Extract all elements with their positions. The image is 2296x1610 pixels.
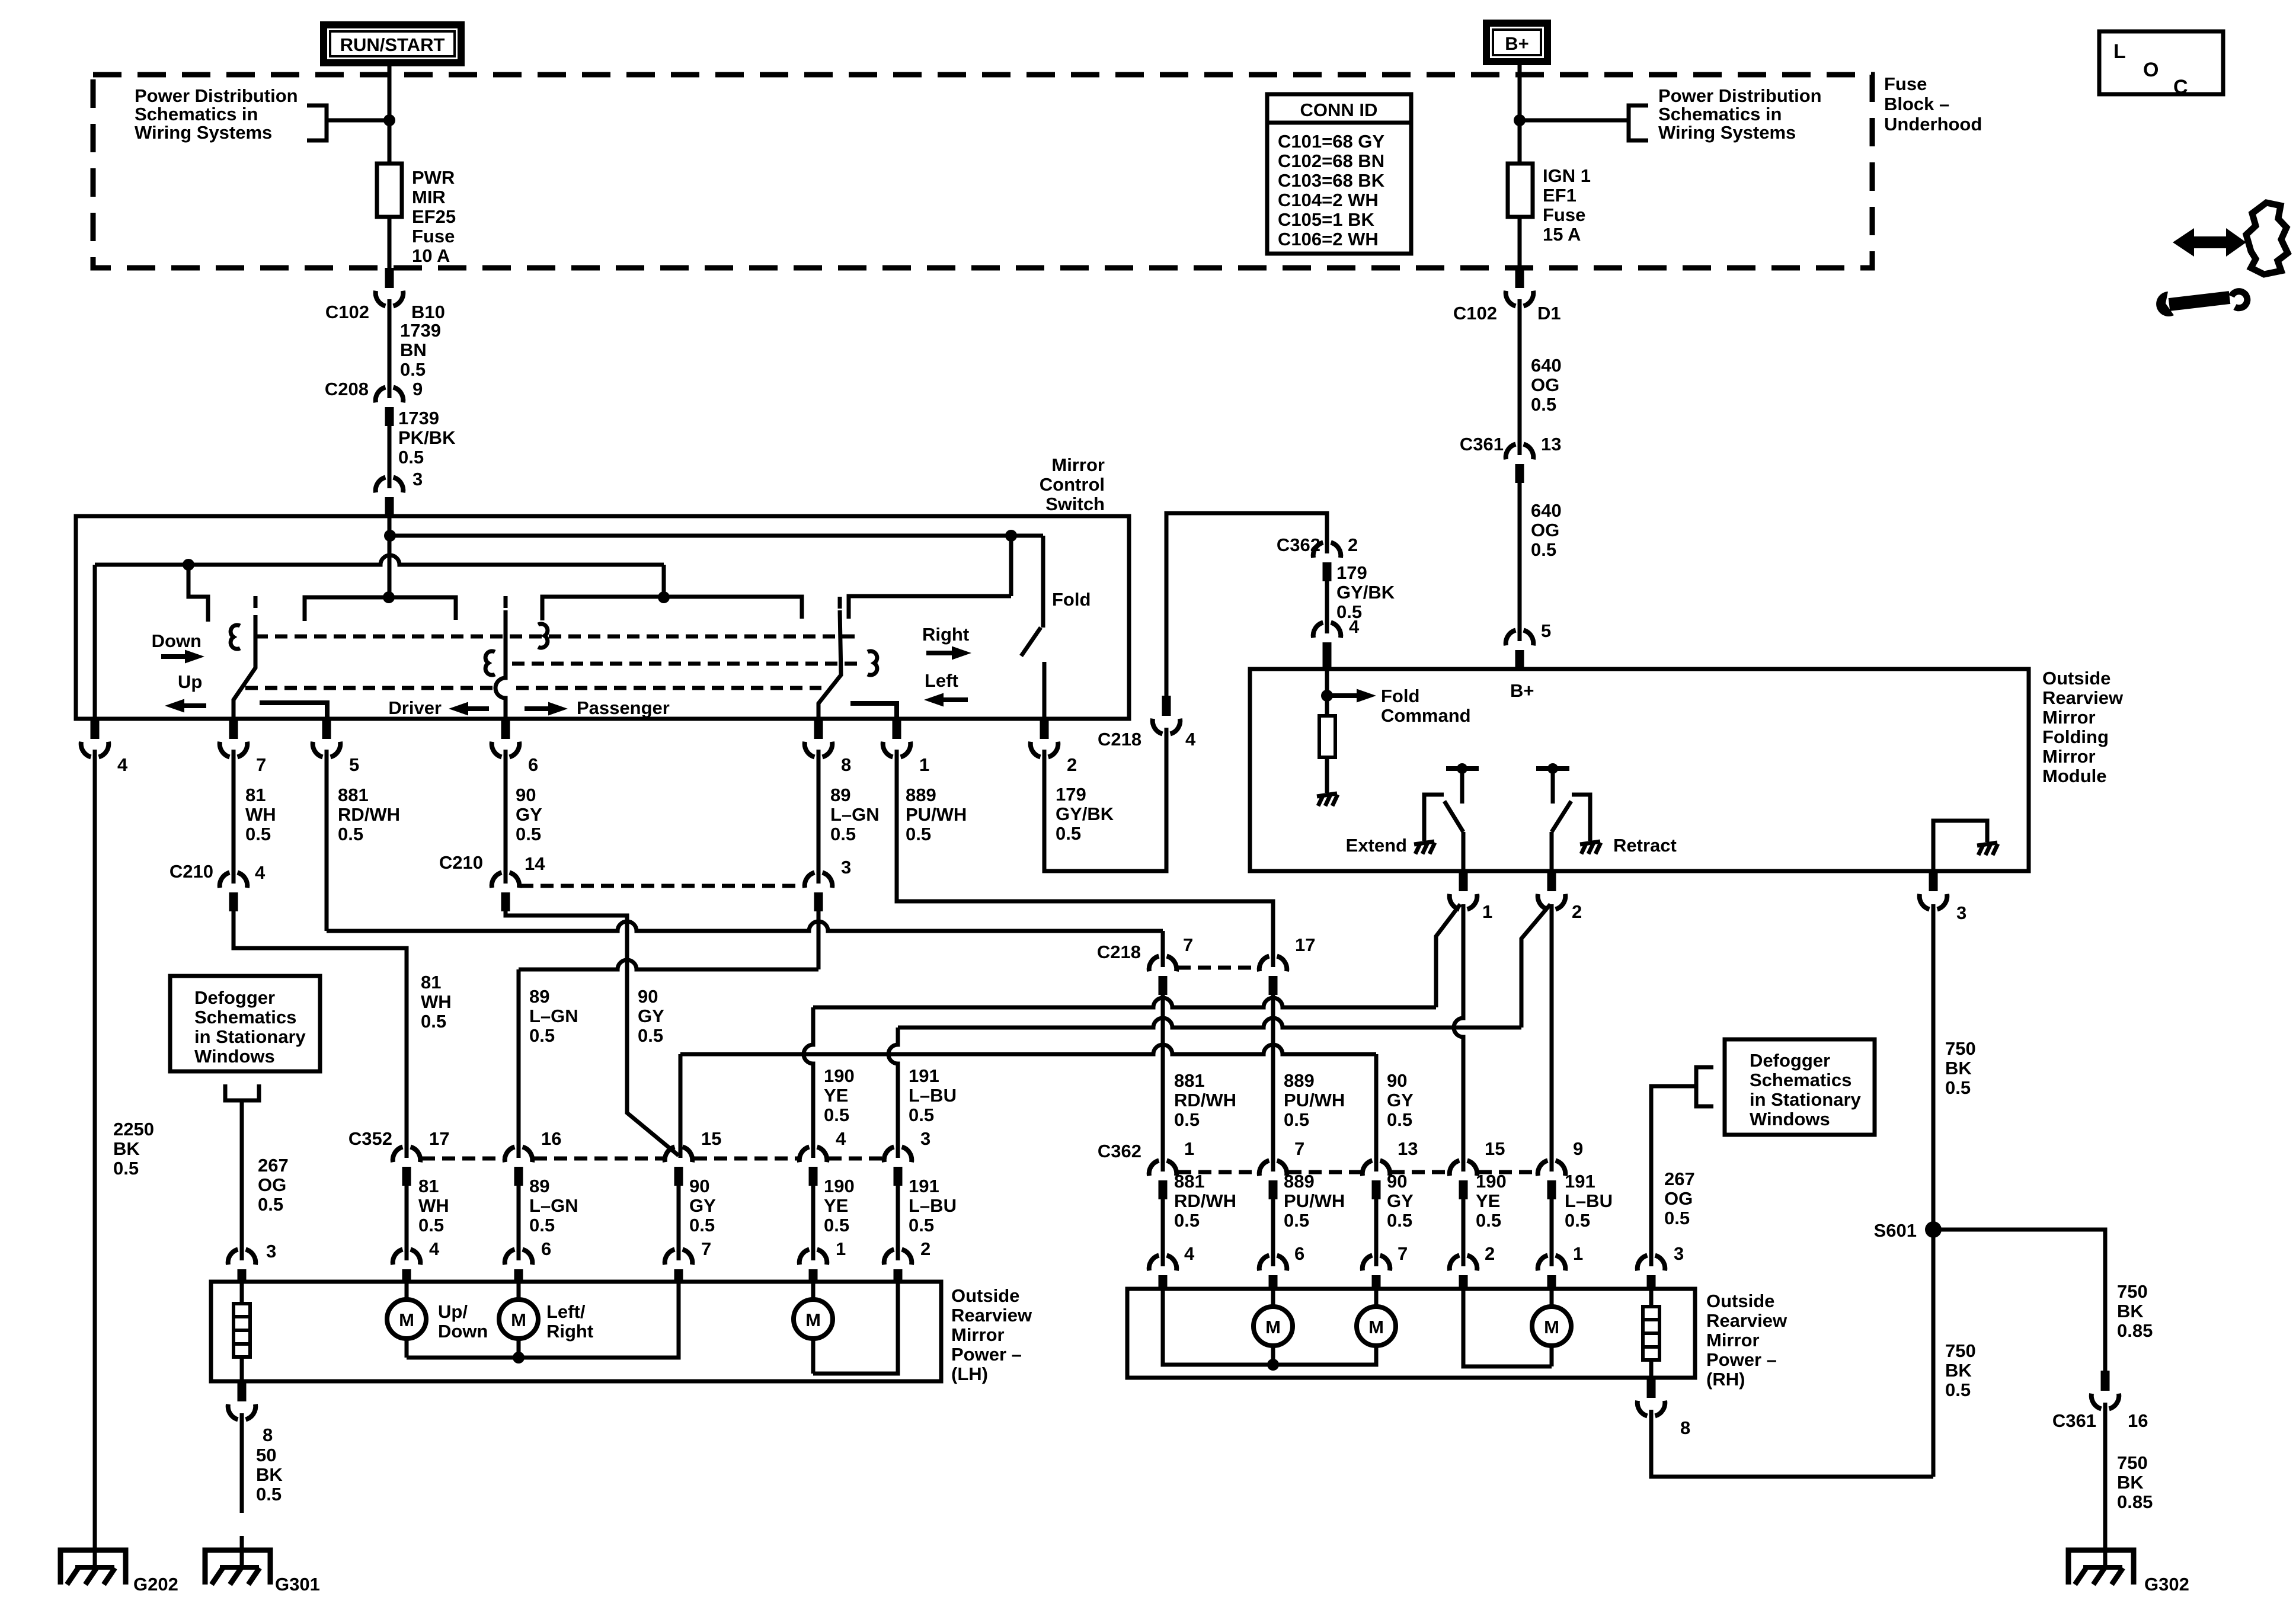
motor RH fold [1532,1289,1571,1366]
connector C210 pin 4 [220,873,248,912]
svg-text:0.5: 0.5 [1284,1210,1309,1231]
svg-text:GY: GY [516,804,542,825]
connector C352 pin 4 [800,1147,827,1186]
connector LH mirror pin 1 [800,1250,827,1284]
svg-text:RUN/START: RUN/START [340,34,445,55]
svg-text:0.5: 0.5 [256,1484,282,1505]
wire 889 PU/WH pin1 to C218-17 [897,750,1273,967]
svg-text:Windows: Windows [1750,1109,1830,1129]
wire 2250 BK pin4 to G202 [93,750,97,1568]
svg-text:B+: B+ [1510,680,1534,701]
wire C352 to LH mirror at 1515 [896,1186,900,1260]
splice S601 [1925,1221,1942,1238]
text 191 L-BU 0.5 below C362 [1565,1171,1613,1231]
svg-text:Mirror: Mirror [1706,1330,1760,1350]
svg-text:C102: C102 [325,302,369,322]
svg-text:C103=68 BK: C103=68 BK [1278,170,1385,191]
connector module pin 4 fold command [1313,623,1341,670]
wire S601 to C361-16 [1933,1230,2105,1371]
wire 191 L-BU module pin2 branch [1521,904,1550,1028]
svg-text:PU/WH: PU/WH [1284,1190,1345,1211]
dashed link C210 [520,884,804,888]
svg-text:750: 750 [2117,1281,2148,1302]
svg-text:S601: S601 [1874,1220,1917,1241]
svg-text:0.5: 0.5 [1174,1210,1200,1231]
text 750 BK 0.5 lower [1945,1340,1976,1400]
node line C right [658,591,670,603]
text 1739 BN 0.5 9 [400,320,441,399]
text 90 GY 0.5 mid [638,986,664,1046]
svg-text:640: 640 [1531,500,1562,521]
ground extend [1414,841,1435,854]
fold switch blade [1021,628,1041,656]
text 267 OG 0.5 RH [1664,1169,1695,1228]
svg-text:7: 7 [1398,1243,1408,1264]
arrow down right [161,654,187,659]
connector mirror switch pin 3 [376,478,404,517]
svg-text:C105=1 BK: C105=1 BK [1278,209,1374,230]
svg-text:Folding: Folding [2042,726,2109,747]
svg-text:190: 190 [824,1065,855,1086]
text 179 GY/BK 0.5 switch side [1056,784,1114,844]
arrow left [941,697,968,702]
text 90 GY 0.5 above C362 [1387,1070,1414,1130]
wire 90 GY to C352-15 [506,911,679,1156]
svg-text:89: 89 [529,1176,549,1196]
connector C361 pin 16 [2092,1371,2119,1409]
contact step down/up switch [188,565,208,622]
wire 81 WH to C352-17 [234,911,407,1158]
resistor fold command [1319,716,1335,757]
connector C218 pin 6 [492,719,520,757]
svg-text:L–BU: L–BU [909,1195,957,1216]
connector C218 pin 2 [1031,719,1059,757]
wire fold tap drop [1009,536,1013,596]
connector C362 pin 9 [1538,1161,1566,1200]
svg-text:191: 191 [909,1176,939,1196]
svg-text:0.5: 0.5 [245,824,271,844]
svg-text:M: M [1368,1317,1384,1337]
svg-text:4: 4 [1184,1243,1195,1264]
connector LH mirror pin 2 [884,1250,912,1284]
wire C352 to LH mirror at 875 [517,1186,521,1260]
svg-text:0.5: 0.5 [1387,1109,1412,1130]
text 81 WH 0.5 upper [245,785,276,844]
wire 750 BK 0.85 to G302 [2103,1403,2108,1568]
text 50 BK 0.5 [256,1445,283,1505]
svg-text:in Stationary: in Stationary [194,1026,306,1047]
connector RH mirror pin 1 [1538,1256,1566,1291]
bus line B [95,555,664,565]
svg-text:Underhood: Underhood [1884,114,1982,135]
wire RH pin 8 to S601 [1651,1410,1933,1477]
connector C218 pin 1 [883,719,911,757]
svg-text:Mirror: Mirror [2042,707,2096,728]
wire LH motor common [407,1282,679,1358]
wire 89 L-GN pin8 to C210-3 [817,750,821,884]
LOC legend box [2099,31,2223,98]
svg-text:Fuse: Fuse [1543,204,1585,225]
svg-text:15 A: 15 A [1543,224,1581,245]
connector RH mirror pin 6 [1259,1256,1287,1291]
arrow driver left [466,706,489,711]
svg-text:M: M [805,1310,821,1330]
svg-text:0.5: 0.5 [516,824,541,844]
svg-text:M: M [1265,1317,1281,1337]
svg-text:267: 267 [1664,1169,1695,1189]
svg-text:Mirror: Mirror [951,1324,1005,1345]
wire retract to pin 2 [1550,832,1554,871]
wire 1739 BN [388,299,392,398]
svg-text:Schematics: Schematics [1750,1070,1851,1090]
svg-text:0.5: 0.5 [1056,823,1081,844]
svg-text:C104=2 WH: C104=2 WH [1278,190,1379,210]
text 89 L-GN 0.5 lower [529,1176,578,1235]
connector C102 pin B10 [376,268,404,306]
connector C352 pin 16 [505,1147,533,1186]
motor RH up/down [1253,1289,1293,1365]
wire C362 to RH mirror at 2469 [1462,1199,1466,1266]
svg-text:GY: GY [1387,1190,1414,1211]
text 179 GY/BK 0.5 module side [1336,562,1395,637]
svg-text:3: 3 [266,1241,276,1262]
svg-text:Mirror: Mirror [1051,454,1105,475]
svg-text:PWR: PWR [412,167,455,188]
connector C210 pin 14 [492,873,520,912]
connector C208 pin 9 [376,388,404,427]
svg-text:L–BU: L–BU [1565,1190,1613,1211]
wire 190 YE module pin1 to C362-15 [1454,904,1463,1172]
dashed link C218 7-17 [1178,966,1258,970]
text 889 PU/WH 0.5 below C362 [1284,1171,1345,1231]
wire 750 BK module pin3 [1932,904,1936,1477]
svg-text:C101=68 GY: C101=68 GY [1278,131,1384,152]
connector C361 pin 13 [1506,444,1534,484]
arrow right [926,651,954,655]
svg-text:G202: G202 [133,1574,178,1595]
left/right switch actuator dashed [838,597,842,612]
svg-text:2: 2 [1572,901,1582,922]
svg-text:7: 7 [1294,1138,1304,1159]
svg-text:C218: C218 [1097,942,1141,962]
svg-text:Power Distribution: Power Distribution [1658,85,1822,106]
bus line A [390,534,1043,538]
wire 179 GY/BK to module [1325,581,1329,633]
svg-text:BK: BK [1945,1360,1972,1381]
svg-text:in Stationary: in Stationary [1750,1089,1862,1110]
svg-text:Outside: Outside [1706,1291,1774,1311]
svg-text:Down: Down [152,630,202,651]
wire 179 GY/BK pin2 loop [1044,728,1166,871]
mirror control switch box [76,516,1129,719]
svg-text:D1: D1 [1537,303,1561,324]
svg-text:O: O [2143,59,2159,81]
svg-text:0.5: 0.5 [113,1158,139,1179]
selector actuator dashed [504,596,508,612]
svg-text:Outside: Outside [951,1285,1019,1306]
svg-text:889: 889 [1284,1070,1315,1091]
callout bracket Power Distribution right [1629,105,1648,140]
motor LH fold [794,1282,833,1374]
svg-text:13: 13 [1541,434,1561,454]
svg-text:Wiring Systems: Wiring Systems [1658,122,1796,143]
text 889 PU/WH 0.5 upper [906,785,967,844]
bus line C mid segment [542,597,802,620]
svg-text:2250: 2250 [113,1119,154,1140]
svg-text:8: 8 [263,1425,273,1445]
text Up/Down [438,1301,488,1342]
connector C210 pin 3 [805,873,833,912]
svg-text:(RH): (RH) [1706,1369,1745,1390]
svg-text:0.5: 0.5 [1565,1210,1590,1231]
svg-text:EF25: EF25 [412,206,456,227]
wire line B to line C drop [662,565,666,597]
svg-text:4: 4 [117,754,128,775]
connector RH mirror pin 7 [1363,1256,1390,1291]
node fold tap [1005,530,1017,542]
connector C352 pin 17 [393,1147,421,1186]
svg-text:15: 15 [1485,1138,1505,1159]
wire 179 GY/BK to C362-2 [1166,513,1327,696]
svg-text:0.5: 0.5 [258,1194,283,1215]
wire 90 GY pin6 to C210 [504,750,508,884]
svg-text:10 A: 10 A [412,245,450,266]
connector C218 pin 7 [1149,956,1177,996]
mech dashed line 2 [512,662,861,666]
svg-text:3: 3 [920,1128,930,1149]
wire 881 to C362-1 [1161,995,1165,1172]
extend switch blade [1444,801,1463,832]
svg-text:Power Distribution: Power Distribution [135,85,298,106]
svg-text:8: 8 [841,754,851,775]
wire RH feed rail [1163,1289,1376,1365]
svg-text:1: 1 [919,754,929,775]
wire fold command internal [1325,669,1329,716]
svg-text:6: 6 [541,1238,551,1259]
svg-text:Driver: Driver [388,697,442,718]
wire 640 OG lower [1518,483,1522,641]
svg-text:0.5: 0.5 [909,1105,934,1125]
svg-text:Passenger: Passenger [577,697,670,718]
text Fold Command [1381,686,1471,726]
svg-text:5: 5 [1541,620,1551,641]
svg-text:Rearview: Rearview [2042,687,2124,708]
svg-text:0.5: 0.5 [1476,1210,1501,1231]
svg-text:0.5: 0.5 [1531,539,1556,560]
svg-text:YE: YE [824,1195,848,1216]
svg-text:0.5: 0.5 [830,824,856,844]
text 640 OG 0.5 lower [1531,500,1562,560]
svg-text:267: 267 [258,1155,289,1176]
svg-text:0.5: 0.5 [338,824,363,844]
svg-text:0.5: 0.5 [1945,1379,1971,1400]
svg-text:Switch: Switch [1045,494,1105,514]
svg-text:0.85: 0.85 [2117,1320,2153,1341]
svg-text:GY: GY [638,1006,664,1026]
mech dashed line 1 [255,635,859,639]
svg-text:C352: C352 [348,1128,392,1149]
svg-text:6: 6 [528,754,538,775]
svg-text:0.5: 0.5 [909,1215,934,1235]
left/right switch blade [818,610,841,719]
text 881 RD/WH 0.5 upper [338,785,400,844]
node line B contact tap [183,559,194,571]
curl selector [485,651,495,675]
svg-text:13: 13 [1398,1138,1418,1159]
svg-text:89: 89 [830,785,850,805]
connector C362 pin 1 [1149,1161,1177,1200]
wire 267 OG LH [240,1100,244,1260]
motor LH up/down [387,1282,426,1358]
svg-text:Defogger: Defogger [194,987,275,1008]
svg-text:(LH): (LH) [951,1363,988,1384]
svg-text:Command: Command [1381,705,1471,726]
svg-text:YE: YE [824,1085,848,1106]
wire B+ to fuse IGN1 [1518,65,1522,164]
svg-text:14: 14 [525,853,545,874]
svg-text:3: 3 [841,857,851,878]
wire 190 YE module pin1 branch [1436,904,1460,1007]
text 89 L-GN 0.5 upper [830,785,880,844]
svg-text:WH: WH [418,1195,449,1216]
connector C362 pin 2 [1313,543,1341,582]
svg-text:90: 90 [1387,1070,1407,1091]
svg-text:Rearview: Rearview [1706,1310,1787,1331]
wire pin4 drop [93,565,97,719]
svg-text:3: 3 [1674,1243,1684,1264]
svg-text:4: 4 [836,1128,846,1149]
svg-text:Fold: Fold [1381,686,1419,706]
svg-text:C210: C210 [170,861,213,882]
outside rearview mirror power RH box [1127,1289,1695,1378]
text PWR MIR EF25 Fuse 10 A [412,167,456,266]
connector LH mirror pin 4 [393,1250,421,1284]
svg-text:1739: 1739 [400,320,441,341]
connector module pin 3 [1920,871,1948,910]
motor LH left/right [499,1282,538,1358]
svg-text:Schematics in: Schematics in [1658,104,1782,124]
connector C218 pin 4 [81,719,109,757]
text 90 GY 0.5 lower [689,1176,716,1235]
svg-text:90: 90 [1387,1171,1407,1192]
arrow fold command [1332,693,1359,698]
svg-text:179: 179 [1056,784,1086,805]
svg-text:881: 881 [1174,1070,1205,1091]
svg-text:1: 1 [1184,1138,1194,1159]
svg-text:2: 2 [1348,534,1358,555]
node LH motor common [513,1352,525,1363]
connector LH mirror pin 6 [505,1250,533,1284]
svg-text:L–GN: L–GN [529,1195,578,1216]
svg-text:Wiring Systems: Wiring Systems [135,122,272,143]
svg-text:BK: BK [1945,1058,1972,1078]
svg-text:RD/WH: RD/WH [1174,1090,1236,1110]
svg-text:90: 90 [638,986,658,1007]
selector blade with hop [495,610,506,719]
svg-text:6: 6 [1294,1243,1304,1264]
svg-text:Module: Module [2042,766,2107,786]
svg-text:750: 750 [2117,1452,2148,1473]
outside rearview mirror power LH box [211,1282,941,1381]
svg-text:Outside: Outside [2042,668,2110,689]
text 190 YE 0.5 above C352 [824,1065,855,1125]
wire C362 to RH mirror at 2148 [1271,1199,1275,1266]
text Outside Rearview Mirror Power LH [951,1285,1032,1384]
node entry line A [384,530,396,542]
connector module pin 1 [1450,871,1478,910]
connector RH mirror pin 2 [1450,1256,1478,1291]
svg-text:OG: OG [1531,520,1559,540]
svg-text:7: 7 [256,754,266,775]
svg-text:M: M [511,1310,526,1330]
svg-text:GY: GY [689,1195,716,1216]
svg-text:B+: B+ [1505,33,1529,54]
text 191 L-BU 0.5 lower [909,1176,957,1235]
svg-text:Left: Left [925,670,958,691]
text 89 L-GN 0.5 mid [529,986,578,1046]
bus line C left segment [305,597,456,621]
svg-text:Up/: Up/ [438,1301,468,1322]
svg-text:Fuse: Fuse [412,226,455,247]
svg-text:9: 9 [412,379,423,399]
connector C102 pin D1 [1506,268,1534,306]
svg-text:C218: C218 [1098,729,1141,750]
text Outside Rearview Mirror Power RH [1706,1291,1787,1390]
svg-text:Defogger: Defogger [1750,1050,1830,1071]
arrow passenger right [525,706,551,711]
text 191 L-BU 0.5 above C352 [909,1065,957,1125]
text 2250 BK 0.5 [113,1119,154,1179]
connector RH mirror pin 3 [1638,1256,1665,1291]
fold switch lower contact [1043,662,1047,719]
fuse IGN 1 EF1 15A [1508,164,1533,217]
svg-text:1: 1 [1482,901,1492,922]
service manual hand wrench icon [2156,203,2288,316]
svg-text:889: 889 [1284,1171,1315,1192]
svg-text:Retract: Retract [1613,835,1677,856]
wire C362 to RH mirror at 1962 [1161,1199,1165,1266]
power label RUN/START [324,25,461,63]
svg-text:640: 640 [1531,355,1562,376]
wire C362 to RH mirror at 2618 [1550,1199,1554,1266]
dashed links C352 [422,1157,503,1161]
fold switch fixed contact [1041,536,1045,628]
svg-text:WH: WH [245,804,276,825]
text 889 PU/WH 0.5 above C362 [1284,1070,1345,1130]
junction node right [1514,114,1526,126]
text 750 BK 0.85 lower [2117,1452,2153,1512]
ground retract [1580,841,1601,854]
svg-text:0.5: 0.5 [1174,1109,1200,1130]
node line C entry [383,591,395,603]
text 90 GY 0.5 upper [516,785,542,844]
svg-text:L–GN: L–GN [529,1006,578,1026]
connector C218 pin 4 fold [1153,696,1181,734]
svg-text:1739: 1739 [398,408,439,428]
svg-text:B10: B10 [411,302,445,322]
svg-text:5: 5 [349,754,359,775]
thermistor LH [234,1282,250,1381]
svg-text:0.5: 0.5 [418,1215,444,1235]
svg-text:0.5: 0.5 [1531,394,1556,415]
text 881 RD/WH 0.5 above C362 [1174,1070,1236,1130]
bracket defogger LH [225,1084,259,1100]
svg-text:2: 2 [1067,754,1077,775]
connector RH mirror pin 4 [1149,1256,1177,1291]
svg-text:90: 90 [689,1176,709,1196]
svg-text:7: 7 [1183,934,1193,955]
text IGN 1 EF1 Fuse 15 A [1543,165,1591,245]
